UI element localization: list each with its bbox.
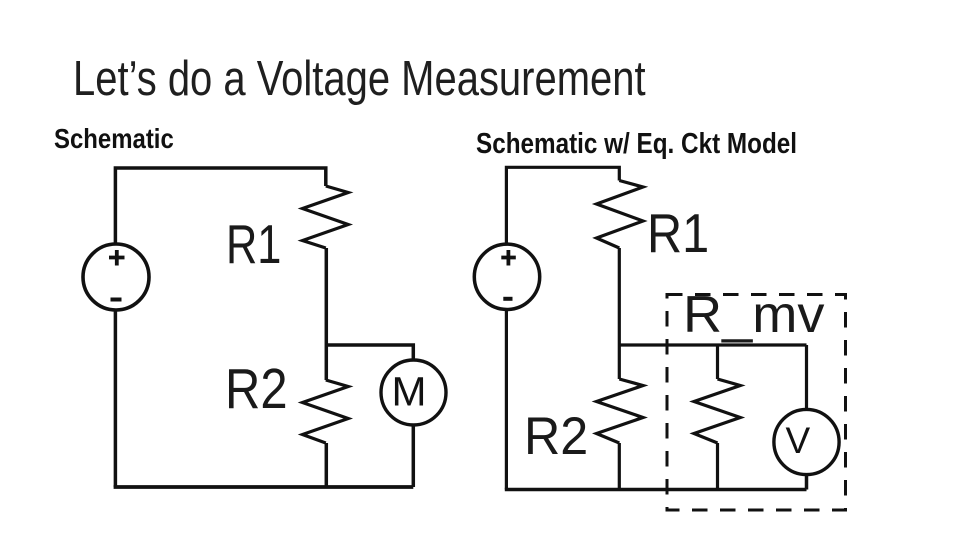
label Schematic [54,125,174,153]
wire: bottom rail [114,485,414,489]
wire: junction rail [619,343,806,346]
minus sign [503,297,512,301]
resistor R2 zigzag (left) [303,380,349,443]
minus sign [111,298,122,302]
wire: R_mv bottom to rail [716,443,719,490]
plus sign [501,250,516,266]
label R_mv [683,289,825,341]
label R1 (left circuit) [226,217,281,272]
resistor R_mv zigzag [694,379,740,443]
wire: R1 bottom to junction [618,248,621,345]
svg-text:V: V [785,420,810,461]
label Schematic w/ Eq. Ckt Model [476,130,797,159]
voltmeter V circle [774,409,839,474]
voltage source V2 circle [474,244,539,309]
wire: R2 stem [618,345,621,379]
wire: junction to meter branch [326,345,413,362]
dashed equivalent-circuit model box [667,295,846,511]
wire: source bottom down to bottom rail [505,310,508,490]
svg-text:M: M [392,369,427,415]
wire: source bottom to bottom rail [114,310,118,488]
wire: voltmeter bottom to rail [805,474,809,490]
voltage source V1 circle [83,244,149,310]
resistor R2 zigzag (right) [597,379,644,443]
wire: R2 bottom to rail [618,443,621,490]
wire: R_mv stem [716,345,719,379]
wire: R1 bottom to junction [325,248,329,345]
label R2 (left circuit) [225,361,288,417]
meter M circle [381,360,446,425]
wire: bottom rail [505,488,807,492]
wire: R2 bottom to bottom rail [325,443,329,487]
wire: source top to R1 top (top rail) [115,168,325,245]
label R1 (right circuit) [647,206,709,261]
wire: junction to voltmeter [805,345,808,410]
wire: source top to R1 top (top rail) [506,167,619,245]
title [73,54,646,104]
wire: meter bottom to bottom rail [412,425,416,487]
resistor R1 zigzag (right) [597,181,644,249]
plus sign [109,250,125,266]
resistor R1 zigzag (left) [303,186,349,248]
label R2 (right circuit) [524,410,588,463]
wire: R2 stem from junction [325,345,329,380]
